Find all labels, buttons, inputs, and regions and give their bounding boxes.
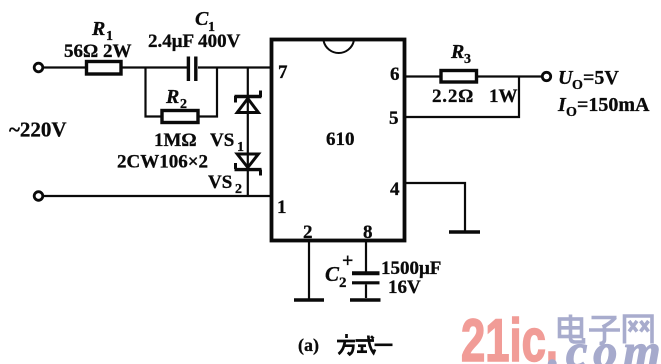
svg-text:R: R <box>450 41 464 63</box>
input terminal bottom <box>34 192 43 201</box>
svg-text:C: C <box>325 262 340 286</box>
zener diode VS1 <box>235 91 262 113</box>
resistor R3 <box>441 71 477 83</box>
svg-text:1: 1 <box>277 197 287 218</box>
input terminal top <box>34 63 43 72</box>
watermark 网 <box>625 316 653 344</box>
svg-text:610: 610 <box>326 129 355 150</box>
wire pin5 feedback <box>405 77 520 118</box>
watermark .com <box>548 325 661 364</box>
svg-text:VS: VS <box>210 130 234 151</box>
svg-text:2.4μF 400V: 2.4μF 400V <box>148 31 241 52</box>
ground pin4 <box>449 230 480 233</box>
IC notch <box>324 41 354 53</box>
resistor R1 <box>87 62 122 75</box>
caption 一 <box>375 343 393 346</box>
wire R1 to C1 <box>121 66 187 68</box>
svg-text:1500μF: 1500μF <box>381 258 441 279</box>
wire C1 to IC pin7 <box>198 66 271 68</box>
svg-text:2: 2 <box>339 275 347 291</box>
svg-text:6: 6 <box>390 64 400 85</box>
output terminal <box>542 72 550 80</box>
svg-text:21ic.: 21ic. <box>461 307 558 364</box>
svg-text:56Ω 2W: 56Ω 2W <box>64 41 131 62</box>
wire pin6 to R3 <box>405 75 442 77</box>
svg-text:=150mA: =150mA <box>577 94 650 116</box>
wire R2 branch right up <box>198 68 217 117</box>
capacitor C2 <box>352 271 380 275</box>
svg-text:R: R <box>91 18 105 40</box>
svg-text:2: 2 <box>303 222 313 243</box>
svg-text:16V: 16V <box>388 277 421 298</box>
svg-text:O: O <box>572 78 583 93</box>
resistor R2 <box>162 111 198 123</box>
svg-text:2: 2 <box>235 182 242 197</box>
wire input to R1 <box>43 66 86 68</box>
svg-text:(a): (a) <box>298 335 319 356</box>
wire pin2 down <box>308 241 310 299</box>
wire pin8 to C2 <box>365 241 367 272</box>
svg-text:3: 3 <box>464 52 471 67</box>
svg-text:C: C <box>195 8 209 30</box>
svg-text:R: R <box>165 86 179 108</box>
watermark 电 <box>560 315 584 343</box>
svg-text:~220V: ~220V <box>9 118 67 142</box>
svg-text:=5V: =5V <box>583 67 619 89</box>
wire bottom rail to IC pin1 <box>43 195 271 197</box>
svg-text:2: 2 <box>180 97 187 112</box>
svg-text:7: 7 <box>278 62 288 83</box>
ground C2 <box>350 298 381 301</box>
svg-text:8: 8 <box>363 222 373 243</box>
wire R2 branch left down <box>146 68 163 117</box>
zener diode VS2 <box>235 154 262 176</box>
ground pin2 <box>294 298 324 301</box>
svg-text:5: 5 <box>389 108 399 129</box>
watermark 21ic <box>461 307 558 364</box>
op-amp U1 IC 610 body <box>272 40 405 241</box>
wire R3 to output terminal <box>477 75 543 77</box>
wire top to VS1 through to bottom rail <box>247 68 249 197</box>
caption 式 <box>356 336 376 354</box>
wire C2 to ground <box>365 285 367 299</box>
svg-text:4: 4 <box>390 179 400 200</box>
wire pin4 to ground <box>405 183 466 232</box>
watermark 子 <box>589 318 620 344</box>
svg-text:1MΩ: 1MΩ <box>154 130 197 151</box>
svg-text:1W: 1W <box>489 86 518 107</box>
capacitor C1 <box>188 57 195 82</box>
svg-text:O: O <box>566 105 577 120</box>
svg-text:+: + <box>342 250 353 272</box>
svg-text:VS: VS <box>208 172 232 193</box>
svg-text:2CW106×2: 2CW106×2 <box>117 152 208 173</box>
svg-text:2.2Ω: 2.2Ω <box>432 86 474 107</box>
caption 方 <box>337 334 355 354</box>
